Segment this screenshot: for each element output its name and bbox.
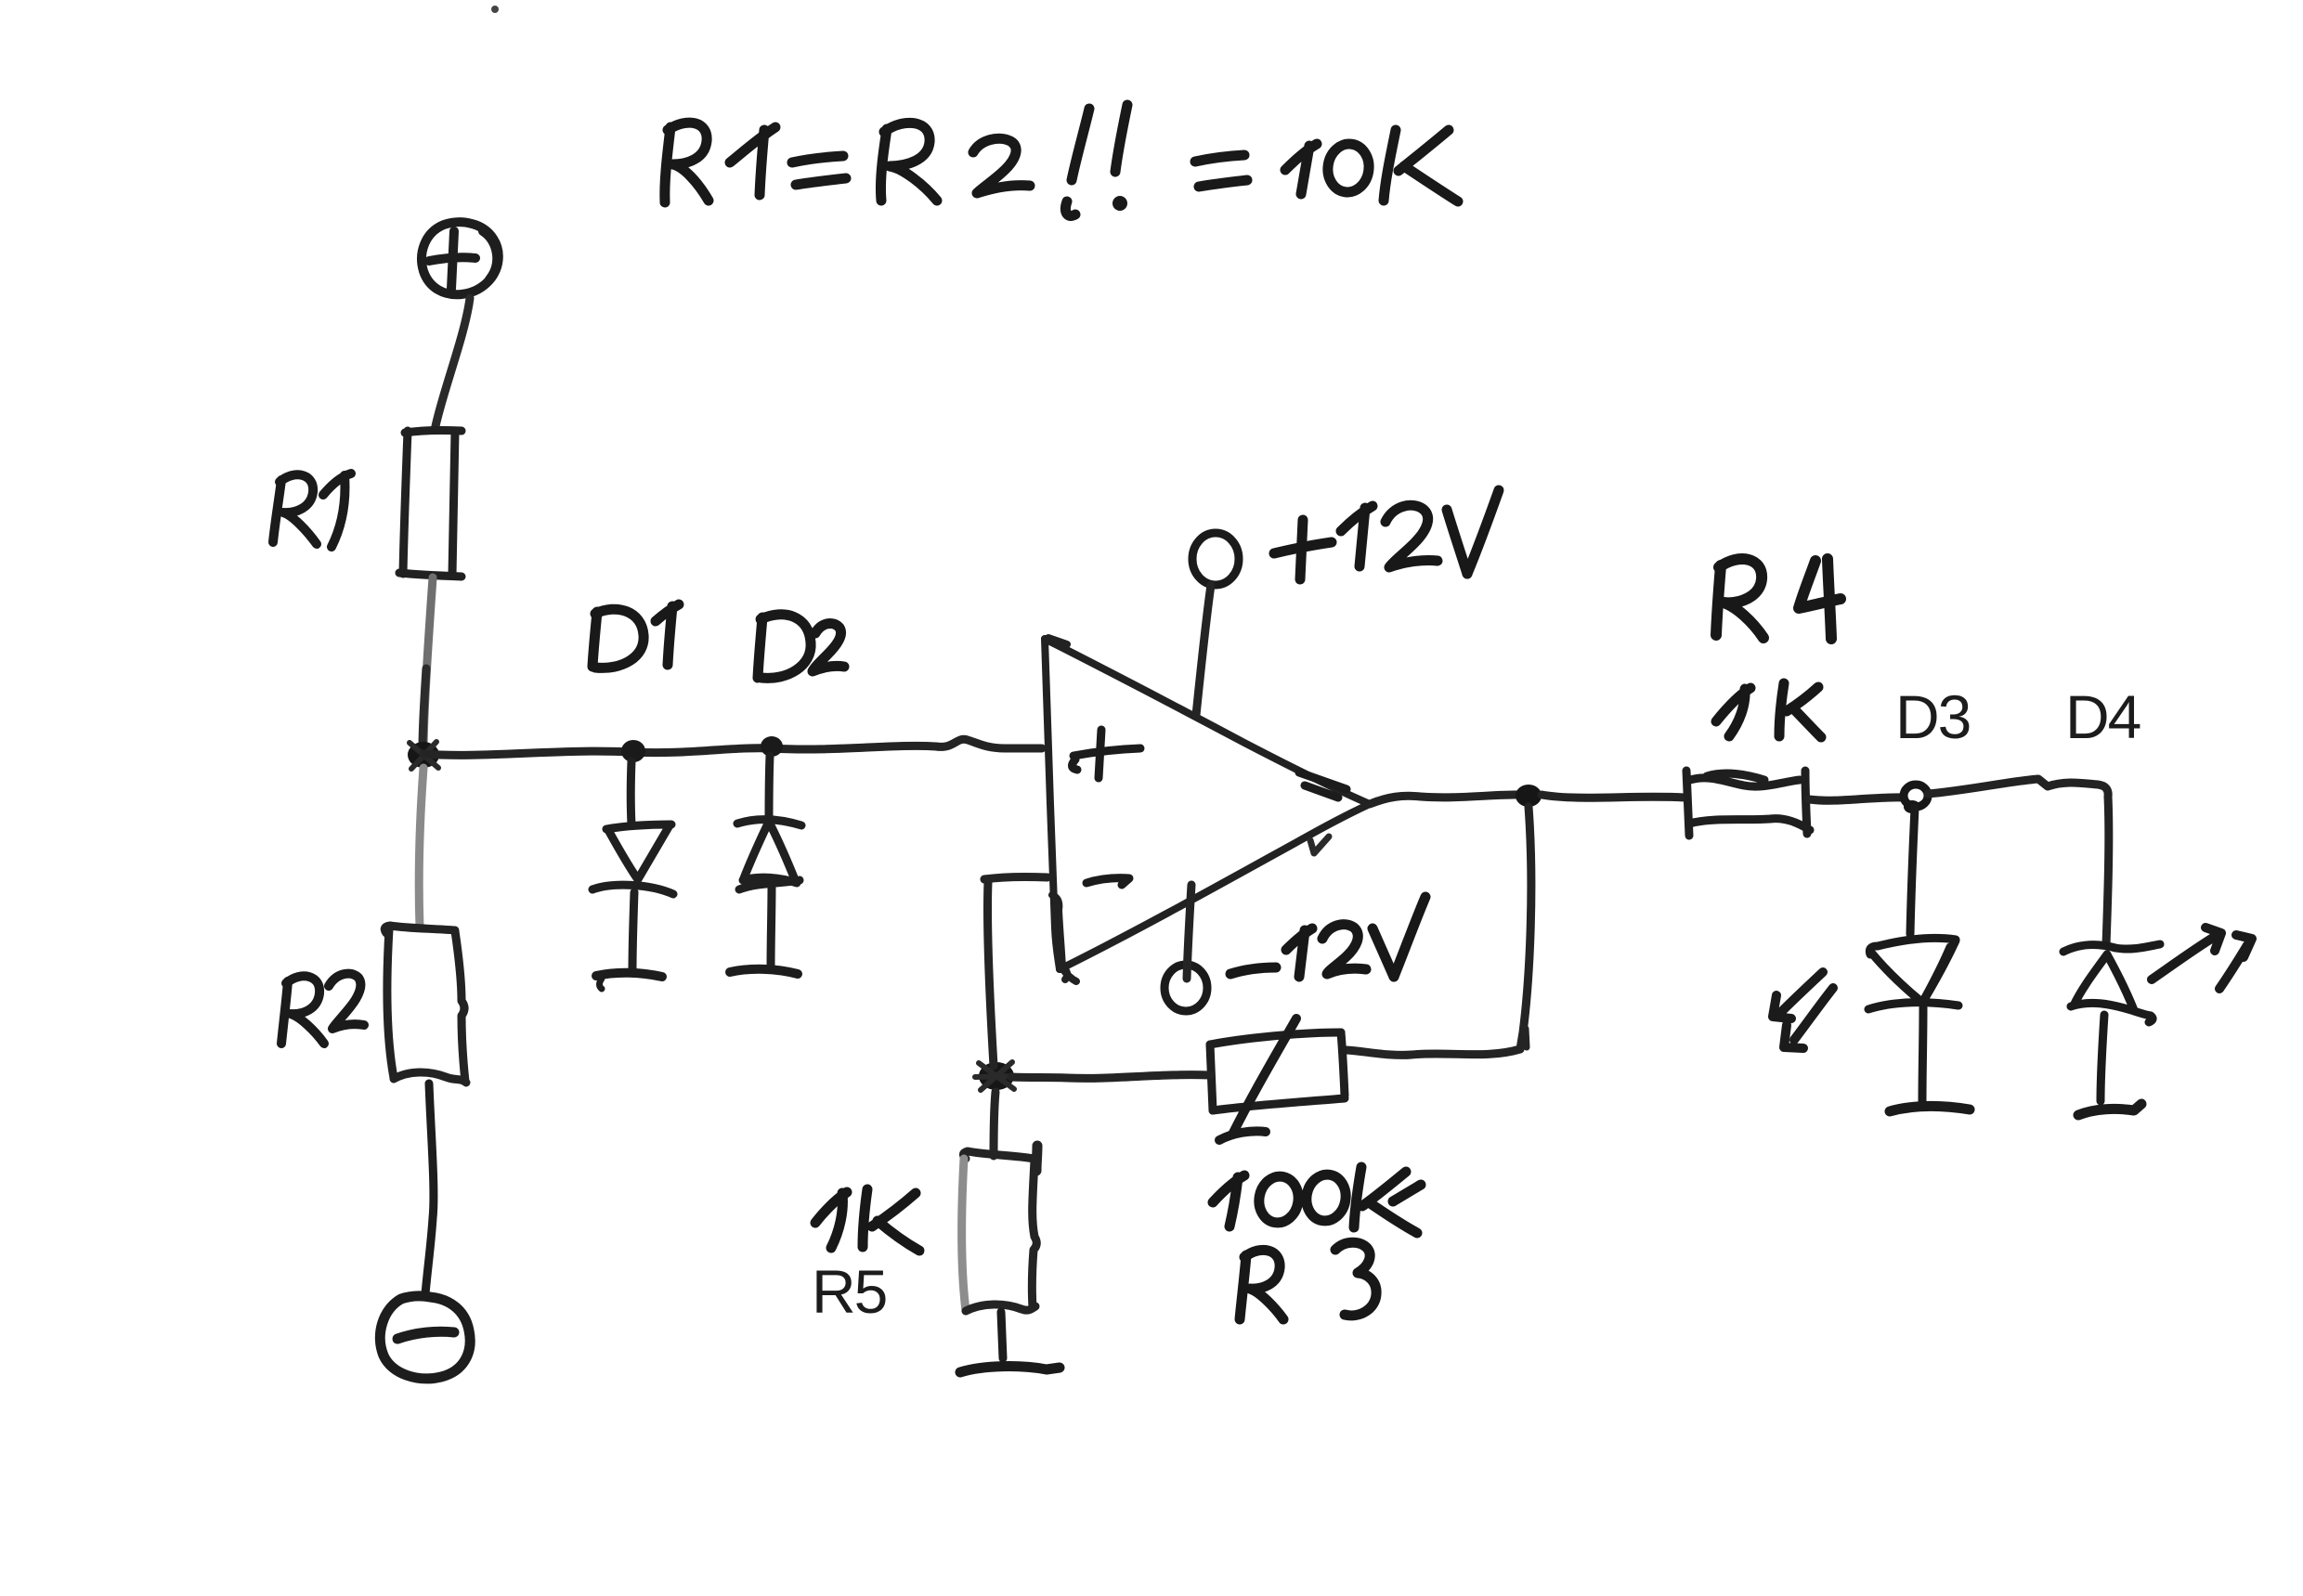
label 100K (handwritten) (1213, 1167, 1421, 1233)
wire node B up to - input (987, 882, 994, 1066)
resistor R4 (1686, 771, 1810, 836)
label R3 (handwritten) (1240, 1242, 1376, 1319)
op-amp - input symbol (1086, 878, 1129, 885)
wire node A down to R2 (419, 768, 423, 928)
wire node B down to R5 (994, 1092, 995, 1156)
ground under D3 (1890, 1106, 1970, 1111)
title: handwritten "R1 = R2 !! = 10K" (665, 105, 1458, 216)
label R2 (handwritten) (281, 974, 364, 1044)
-12V supply terminal circle (1165, 965, 1207, 1011)
LED D3 (1868, 808, 1958, 1101)
LED D3 emission arrows (1773, 972, 1833, 1048)
wire R1 to node A (423, 577, 433, 746)
feedback wire bottom to potentiometer (1346, 1049, 1520, 1055)
ground under D1 (596, 973, 662, 977)
wire down to D4 (2106, 797, 2109, 945)
output junction dot (1516, 785, 1542, 807)
wire R4 to node C (1809, 798, 1903, 800)
svg-text:D3: D3 (1895, 682, 1970, 751)
terminal + (positive supply input) (422, 222, 499, 294)
label -12V (handwritten) (1230, 897, 1425, 977)
node A junction dot (408, 742, 439, 768)
label D2 (handwritten) (758, 615, 844, 679)
wire op-amp output to junction (1370, 795, 1528, 804)
label R4 (handwritten) (1716, 559, 1841, 639)
LED D4 emission arrows (2152, 928, 2252, 989)
small arrow tick on lower edge of op-amp (1310, 837, 1329, 853)
label 1K for R4 (handwritten) (1716, 683, 1821, 737)
wire node C to D4 corner (1928, 779, 2108, 797)
junction dot D1 (621, 740, 645, 762)
wire node A to op-amp + input (423, 739, 1042, 755)
resistor R5 (962, 1146, 1037, 1311)
op-amp + input symbol (1072, 730, 1140, 778)
wire +12V to op-amp (1196, 585, 1211, 715)
label R1 (handwritten) (273, 474, 351, 547)
svg-text:D4: D4 (2065, 682, 2140, 751)
junction dot D2 (761, 736, 783, 757)
ground under D4 (2078, 1104, 2141, 1115)
diode D1 (592, 761, 673, 971)
wire node B to potentiometer left (1011, 1075, 1210, 1079)
potentiometer R3 wiper arrow (1232, 1019, 1296, 1135)
potentiometer R3 body (1210, 1032, 1345, 1110)
terminal - (negative supply input) (380, 1296, 470, 1379)
label +12V (handwritten) (1274, 490, 1499, 579)
wire output junction to R4 (1542, 795, 1685, 798)
wire op-amp to -12V (1187, 885, 1191, 979)
node B junction dot (inverting input node) (979, 1062, 1014, 1090)
op-amp U1 triangle body (1045, 638, 1370, 981)
node C circle junction (1904, 785, 1928, 807)
resistor R1 (399, 430, 462, 577)
wire R5 to ground (1001, 1312, 1003, 1358)
LED D4 (2063, 944, 2160, 1101)
diode D2 (737, 756, 801, 967)
label D1 (handwritten) (592, 604, 679, 668)
feedback wire down from output junction (1520, 807, 1531, 1049)
resistor R2 (384, 926, 466, 1083)
wire + terminal to R1 (436, 298, 470, 426)
stray pencil dot top (491, 6, 499, 13)
+12V supply terminal circle (1192, 533, 1239, 585)
svg-text:R5: R5 (812, 1257, 886, 1326)
label 1K for R5 (handwritten) (815, 1189, 919, 1251)
wire R2 to terminal - (425, 1083, 434, 1294)
ground under D2 (730, 969, 798, 974)
op-amp output double tick near apex (1299, 772, 1347, 798)
ground under R5 (960, 1367, 1060, 1372)
